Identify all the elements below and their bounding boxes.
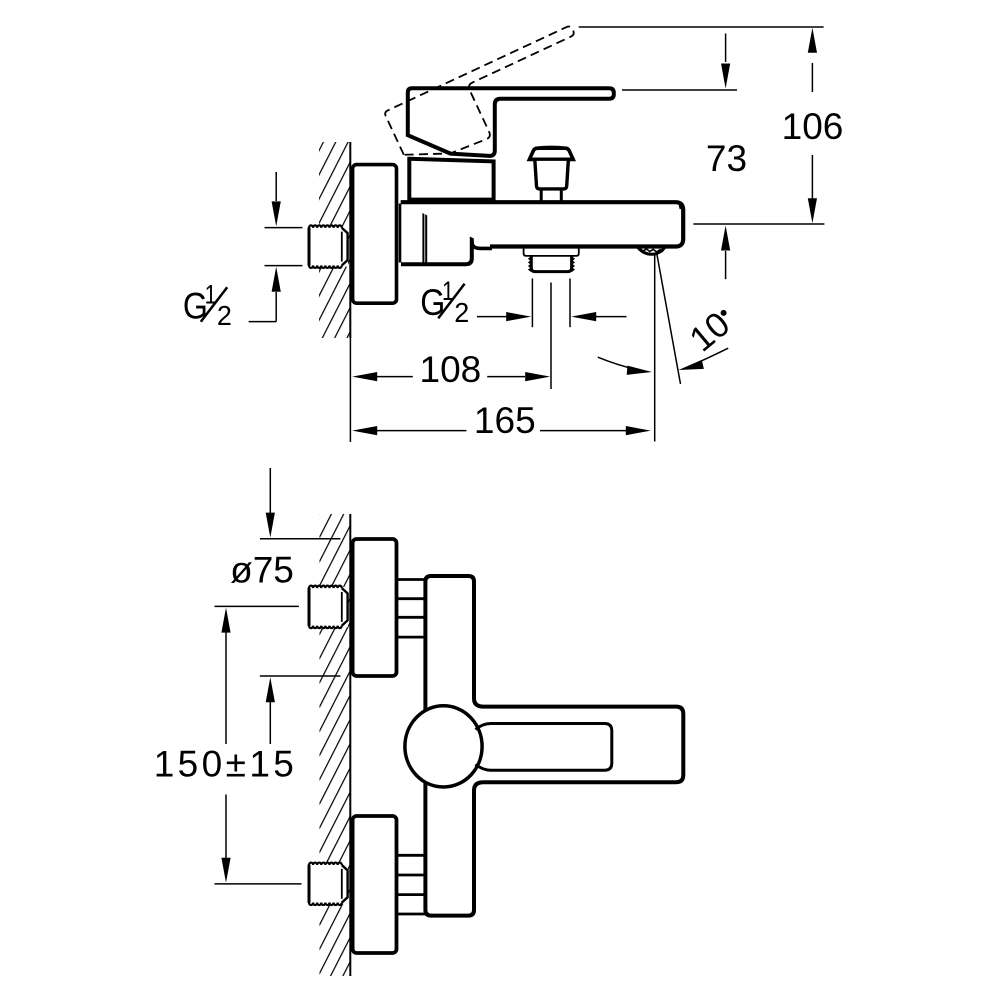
union nut flats lower (397, 855, 426, 914)
union nut flats upper (397, 580, 426, 638)
dimension 165 (352, 426, 377, 435)
svg-text:106: 106 (782, 106, 844, 147)
extension line at spout outlet level (693, 223, 824, 225)
shower outlet collar under spout (524, 248, 579, 256)
G1/2 left: arrows (275, 172, 277, 201)
dimension 150±15: arrows (221, 608, 230, 633)
G1/2 center: arrows (477, 316, 507, 318)
cartridge collar under handle (409, 159, 493, 200)
extension line from solid handle top (622, 89, 737, 91)
svg-text:165: 165 (474, 400, 536, 441)
dia 75: arrows (269, 468, 271, 513)
svg-text:10: 10 (682, 304, 737, 359)
dimension 108 (352, 372, 377, 381)
escutcheon plate upper (plan) (353, 539, 397, 676)
diverter knob stem (540, 189, 543, 201)
shower outlet G1/2 nipple threads (531, 257, 571, 272)
aerator at spout tip (638, 247, 666, 254)
dimension 150±15: extension lines (215, 605, 299, 607)
G1/2 left: extension lines (265, 227, 303, 229)
dia 75: extension lines (260, 538, 341, 540)
handle (solid position) (408, 88, 614, 156)
10 degree: vertical reference line (654, 253, 656, 442)
wall extension line (349, 334, 351, 442)
faucet body with lever (plan outline) (425, 576, 683, 916)
G1/2 left: label (183, 280, 232, 332)
wall surface line (plan view) (349, 514, 351, 976)
svg-text:ø75: ø75 (230, 550, 294, 591)
escutcheon wall plate (side view) (353, 165, 397, 304)
wall surface line (side view) (349, 142, 351, 338)
wall hatch (plan view) (320, 514, 351, 976)
G1/2 inlet nipple upper (plan) (308, 586, 348, 629)
svg-text:73: 73 (706, 138, 747, 179)
handle (raised position, dashed) (384, 25, 599, 173)
diverter knob cup (535, 159, 569, 189)
G1/2 wall inlet nipple (side view) (308, 225, 348, 268)
G1/2 center: label (420, 276, 469, 328)
svg-text:150±15: 150±15 (154, 744, 298, 785)
diverter knob cap (529, 148, 573, 159)
10 degree: slanted line (657, 253, 681, 385)
escutcheon plate lower (plan) (353, 816, 397, 953)
outlet centerline (550, 283, 552, 390)
mounting connector behind plate (422, 204, 424, 263)
S-curve block to spout underside (472, 240, 492, 248)
wall hatch (side view) (319, 142, 350, 338)
mounting block body (401, 204, 472, 264)
dimension 106 (811, 63, 813, 92)
svg-text:108: 108 (420, 349, 482, 390)
spout tip inner notch (680, 205, 681, 210)
G1/2 center: extension lines below outlet (531, 279, 533, 328)
G1/2 inlet nipple lower (plan) (308, 863, 348, 906)
extension line from raised handle tip (579, 26, 824, 28)
dimension 73 (725, 34, 727, 63)
lever inner outline (plan) (476, 724, 612, 771)
diverter knob (plan, circle) (405, 706, 482, 787)
10 degree: arc arrows (598, 357, 647, 371)
spout body (side view) (401, 202, 684, 246)
